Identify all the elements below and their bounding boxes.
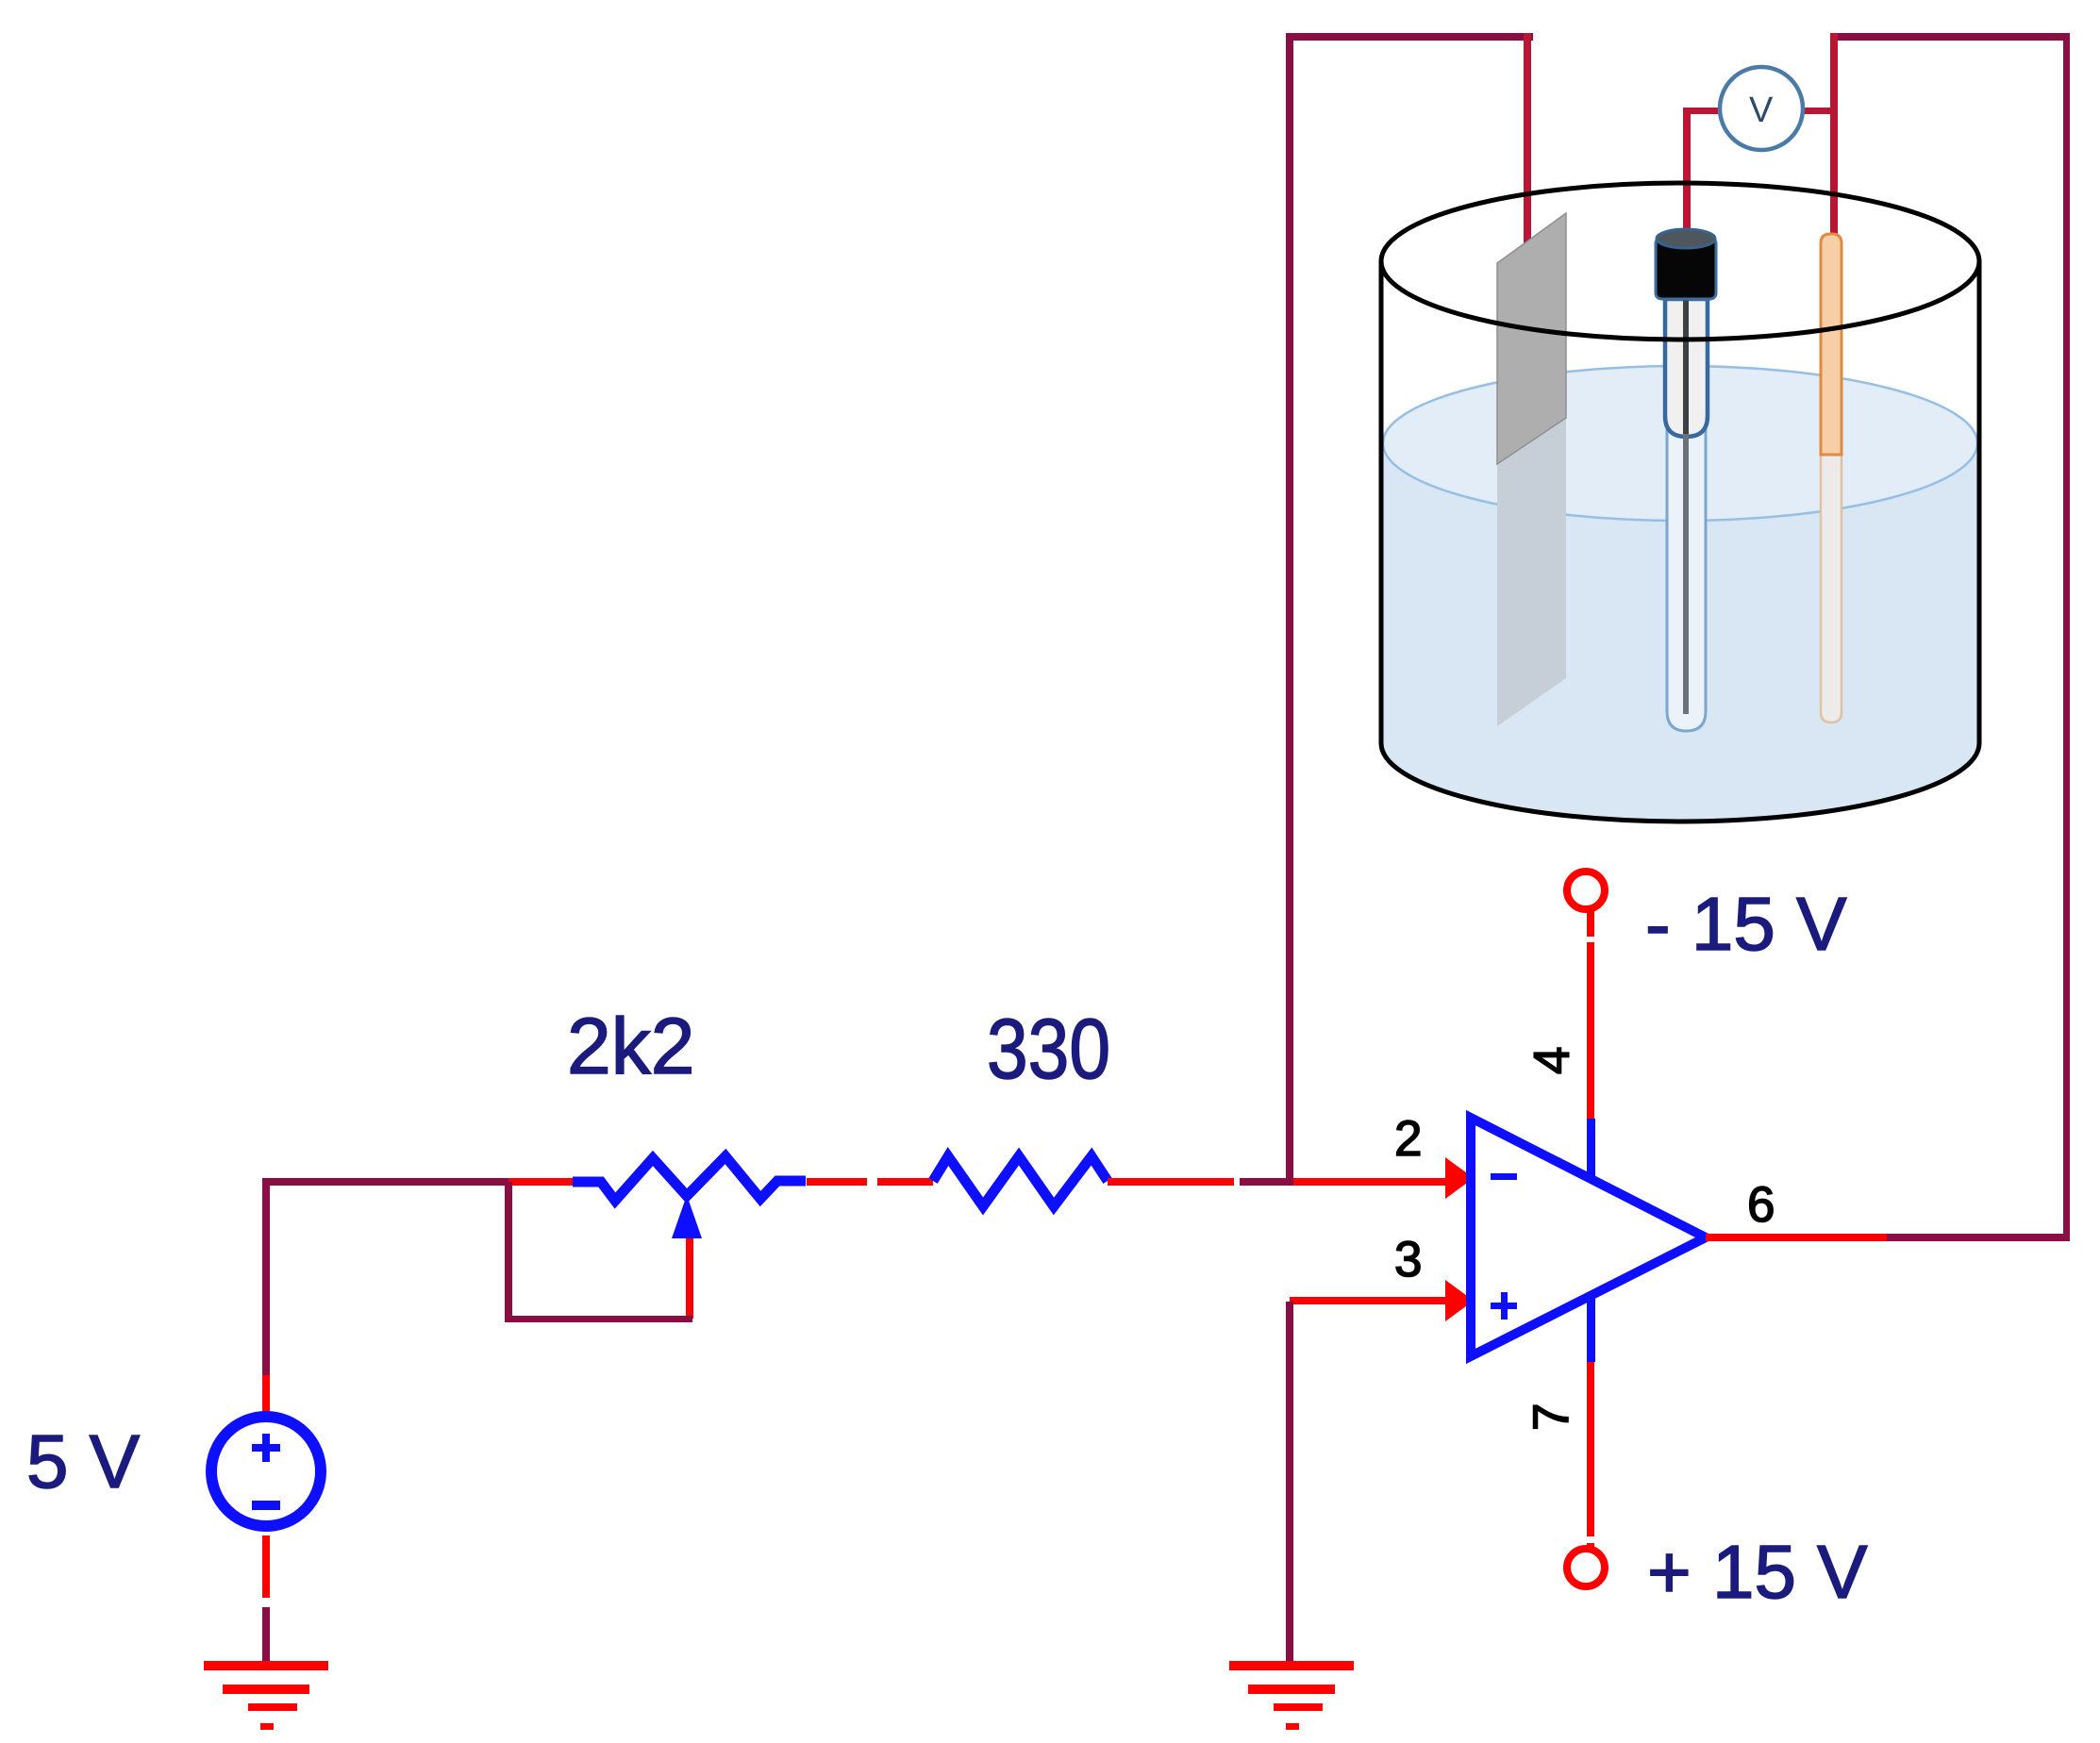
op-amp minus symbol	[1491, 1173, 1517, 1180]
wire: pin 7 red to +15V terminal	[1587, 1362, 1594, 1549]
ground symbol 2	[1229, 1661, 1354, 1670]
wire: pot wiper red stem	[686, 1238, 693, 1319]
op-amp plus symbol	[1491, 1303, 1517, 1309]
reference electrode outer tube (underwater part)	[1667, 429, 1706, 731]
op-amp U1 triangle	[1471, 1118, 1706, 1356]
wire: crimson drop to counter electrode plate	[1524, 33, 1531, 245]
wire: red segment to pot left lead	[508, 1178, 573, 1186]
source plus symbol	[252, 1444, 280, 1452]
wire: 5V source top vertical maroon	[262, 1178, 270, 1375]
wire: pin 6 red output	[1706, 1234, 1887, 1241]
working electrode (underwater part)	[1821, 455, 1842, 722]
wire: crimson drop to working electrode	[1830, 33, 1838, 235]
reference electrode cap top	[1657, 229, 1715, 248]
potentiometer 2k2 zigzag	[573, 1156, 806, 1201]
ground symbol 1	[204, 1661, 328, 1670]
wire: 5V source top vertical red	[262, 1375, 270, 1417]
wire: pot feedback left vertical maroon	[505, 1182, 512, 1322]
wire: pot feedback bottom horizontal maroon	[505, 1316, 692, 1322]
reference electrode cap	[1656, 238, 1716, 299]
pin 3 arrowhead	[1445, 1280, 1474, 1321]
wire: pin 6 maroon output to right vertical	[1887, 1234, 2070, 1241]
wire: main input horizontal maroon from 5V corner to pot junction	[262, 1178, 508, 1186]
potentiometer wiper arrow	[672, 1195, 702, 1238]
resistor 330 zigzag	[933, 1156, 1108, 1206]
wire gap above +15V terminal	[1583, 1536, 1598, 1543]
pin 4 blue stub	[1587, 1119, 1595, 1182]
terminal -15V circle	[1567, 871, 1605, 909]
source minus symbol	[252, 1501, 280, 1510]
wire: pin 3 maroon vertical to ground	[1286, 1302, 1293, 1668]
svg-text:7: 7	[1524, 1403, 1579, 1431]
wire: pin 3 red input	[1290, 1297, 1449, 1304]
wire: voltmeter right lead	[1801, 108, 1838, 114]
wire gap below -15V terminal	[1583, 937, 1598, 942]
wire: left outer vertical (counter electrode net to pin 2)	[1286, 33, 1293, 1185]
pin 7 blue stub	[1587, 1295, 1595, 1362]
svg-text:3: 3	[1394, 1232, 1422, 1287]
voltage source V1 5V circle	[211, 1417, 321, 1526]
counter electrode plate (above water)	[1497, 213, 1566, 464]
wire: red dashes between pot and 330	[807, 1178, 867, 1186]
wire: top-left horizontal (counter electrode net)	[1287, 33, 1533, 41]
svg-text:4: 4	[1525, 1047, 1580, 1074]
beaker top rim ellipse	[1381, 183, 1979, 340]
reference electrode inner rod	[1683, 434, 1689, 714]
beaker outline glass	[1381, 261, 1979, 822]
voltmeter V	[1720, 67, 1803, 150]
wire: top-right horizontal (output net)	[1834, 33, 2070, 41]
pin 2 arrowhead	[1445, 1157, 1474, 1199]
wire: below source maroon	[262, 1607, 270, 1668]
svg-text:2: 2	[1394, 1111, 1422, 1167]
wire: pin 2 red input	[1293, 1178, 1449, 1186]
beaker water body	[1381, 365, 1979, 822]
wire: voltmeter left lead	[1684, 108, 1722, 114]
svg-text:2k2: 2k2	[567, 1002, 694, 1090]
svg-text:V: V	[1749, 91, 1774, 130]
counter electrode plate (underwater part)	[1497, 418, 1566, 726]
wire: right outer vertical (output net)	[2063, 33, 2070, 1241]
svg-text:330: 330	[987, 1003, 1110, 1097]
svg-text:5 V: 5 V	[26, 1419, 141, 1503]
water surface ellipse	[1383, 366, 1977, 521]
svg-text:- 15 V: - 15 V	[1645, 882, 1847, 966]
working electrode (above water, orange)	[1821, 234, 1842, 455]
wire: below source red	[262, 1535, 270, 1598]
wire: pin 4 red to -15V terminal	[1587, 908, 1594, 1119]
terminal +15V circle	[1567, 1549, 1605, 1586]
svg-text:6: 6	[1747, 1177, 1775, 1233]
reference electrode inner glass tube (above water)	[1665, 299, 1708, 437]
wire: maroon segment to pin2 junction	[1240, 1178, 1293, 1186]
wire: crimson drop to reference electrode cap	[1683, 108, 1691, 234]
wire: red segment after 330	[1108, 1178, 1234, 1186]
svg-text:+ 15 V: + 15 V	[1647, 1530, 1868, 1614]
